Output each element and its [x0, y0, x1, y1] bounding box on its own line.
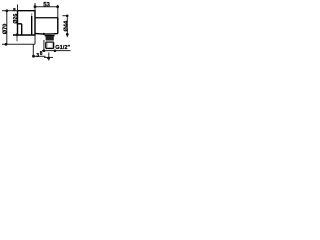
svg-text:Ø70: Ø70: [2, 24, 8, 35]
svg-text:53: 53: [43, 3, 50, 9]
svg-text:8: 8: [40, 51, 43, 57]
svg-text:Ø44: Ø44: [63, 20, 69, 31]
svg-text:G1/2": G1/2": [55, 45, 70, 51]
svg-text:Ø26: Ø26: [13, 14, 19, 24]
svg-text:8: 8: [13, 7, 16, 12]
